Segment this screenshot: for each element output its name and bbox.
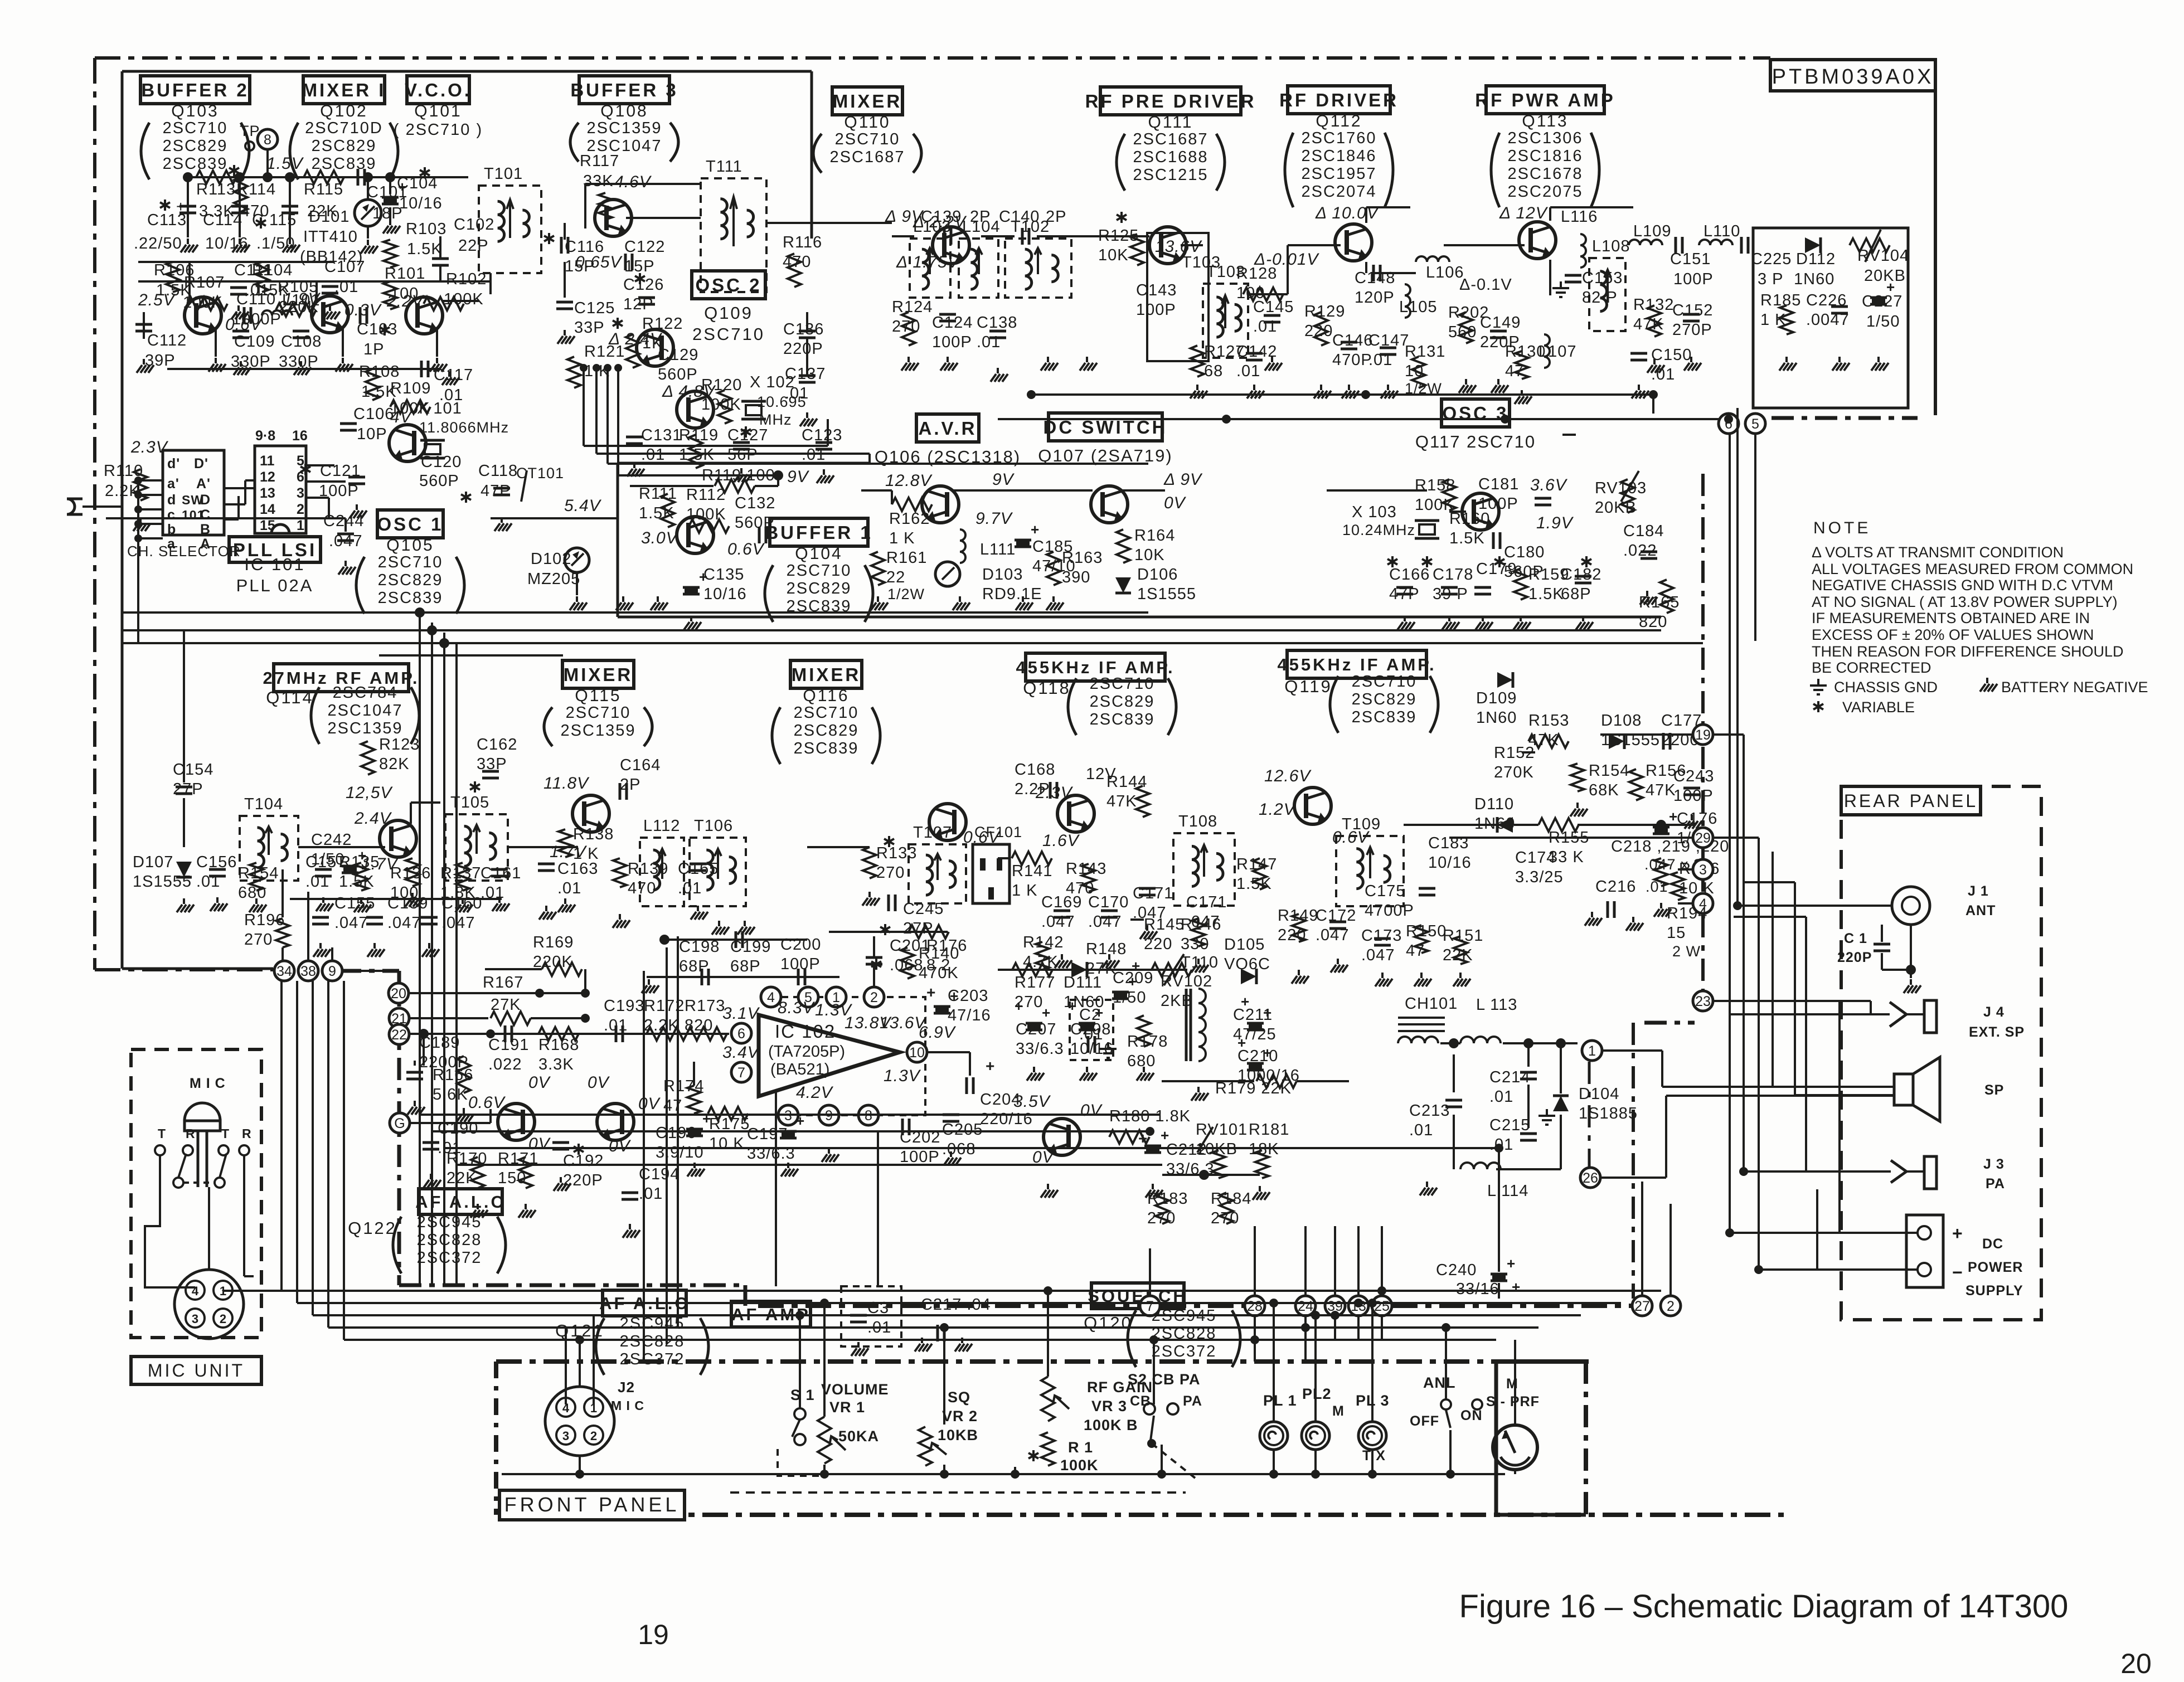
svg-text:2SC710: 2SC710 [1090, 675, 1155, 693]
svg-text:C155: C155 [334, 895, 375, 912]
svg-text:1S1555: 1S1555 [1137, 585, 1196, 603]
svg-text:ANL: ANL [1423, 1374, 1456, 1391]
svg-text:Q115: Q115 [575, 687, 621, 705]
svg-text:MIXER I: MIXER I [302, 80, 386, 100]
svg-text:TP: TP [240, 123, 260, 139]
svg-text:100P: 100P [780, 955, 821, 973]
svg-text:C225: C225 [1751, 250, 1792, 268]
svg-text:C240: C240 [1436, 1261, 1477, 1279]
svg-text:C102: C102 [454, 216, 494, 234]
svg-text:BUFFER 2: BUFFER 2 [141, 80, 249, 100]
svg-text:d': d' [167, 456, 180, 471]
svg-text:D101: D101 [309, 208, 350, 226]
svg-text:L112: L112 [643, 817, 680, 835]
svg-text:R129: R129 [1304, 303, 1345, 320]
svg-text:0V: 0V [528, 1073, 551, 1092]
svg-text:b: b [167, 522, 176, 537]
svg-text:R 1: R 1 [1068, 1439, 1093, 1456]
svg-text:1.5K: 1.5K [639, 504, 674, 522]
svg-text:.047: .047 [1041, 913, 1075, 931]
svg-text:C131: C131 [641, 426, 682, 444]
svg-text:5: 5 [297, 453, 304, 469]
svg-text:EXT. SP: EXT. SP [1969, 1024, 2025, 1040]
svg-text:2SC372: 2SC372 [1152, 1343, 1217, 1360]
svg-text:22: 22 [391, 1027, 407, 1043]
svg-text:C137: C137 [785, 365, 826, 383]
svg-text:11.8066MHz: 11.8066MHz [419, 419, 509, 436]
svg-text:1: 1 [297, 518, 304, 533]
svg-text:Figure 16 – Schematic Diagram: Figure 16 – Schematic Diagram of 14T300 [1459, 1588, 2069, 1625]
svg-text:C146: C146 [1332, 332, 1373, 349]
svg-text:Q122: Q122 [348, 1218, 397, 1238]
svg-text:100K: 100K [1060, 1457, 1099, 1474]
svg-text:R174: R174 [663, 1077, 704, 1095]
svg-text:C 115: C 115 [252, 211, 297, 229]
svg-text:.01: .01 [1253, 318, 1277, 336]
svg-text:1.5V: 1.5V [266, 154, 304, 173]
svg-text:C124: C124 [932, 314, 973, 332]
svg-text:26: 26 [1583, 1170, 1598, 1186]
svg-text:J 4: J 4 [1983, 1004, 2005, 1020]
svg-text:2SC1687: 2SC1687 [1133, 130, 1209, 148]
svg-text:820: 820 [685, 1017, 713, 1034]
svg-text:13: 13 [260, 485, 275, 501]
svg-text:9: 9 [328, 964, 336, 979]
svg-text:3.1V: 3.1V [722, 1004, 760, 1023]
svg-text:L108: L108 [1592, 237, 1630, 255]
svg-text:C149: C149 [1480, 314, 1521, 332]
svg-text:2SC1047: 2SC1047 [328, 702, 403, 720]
svg-text:REAR PANEL: REAR PANEL [1844, 791, 1978, 811]
svg-text:2SC710: 2SC710 [378, 553, 443, 571]
svg-text:2 W: 2 W [1672, 943, 1701, 960]
svg-text:POWER: POWER [1968, 1260, 2023, 1275]
svg-text:2SC829: 2SC829 [378, 571, 443, 589]
svg-text:10/16: 10/16 [703, 585, 747, 603]
svg-text:19: 19 [1695, 727, 1711, 743]
svg-text:MIXER: MIXER [564, 664, 633, 685]
svg-text:3.4V: 3.4V [722, 1043, 760, 1062]
svg-text:2SC945: 2SC945 [620, 1315, 685, 1333]
svg-text:VR 3: VR 3 [1091, 1398, 1127, 1414]
svg-text:3.5V: 3.5V [1013, 1092, 1051, 1111]
svg-text:10K: 10K [1098, 246, 1129, 264]
svg-text:R102: R102 [446, 270, 487, 288]
svg-text:2SC839: 2SC839 [1090, 711, 1155, 728]
svg-text:C216: C216 [1595, 878, 1636, 896]
svg-text:R181: R181 [1249, 1121, 1289, 1139]
svg-text:+: + [1132, 957, 1140, 974]
svg-text:Δ-0.1V: Δ-0.1V [1459, 276, 1512, 294]
svg-text:22K: 22K [446, 1169, 477, 1187]
svg-text:38: 38 [300, 964, 316, 979]
svg-text:S2 CB PA: S2 CB PA [1128, 1371, 1201, 1388]
svg-text:.01: .01 [1646, 878, 1668, 895]
svg-text:B: B [200, 522, 211, 537]
svg-text:+: + [1952, 1223, 1963, 1243]
svg-text:Q109: Q109 [704, 303, 753, 323]
svg-text:270P: 270P [1672, 321, 1712, 339]
svg-text:68K: 68K [1589, 781, 1619, 799]
svg-text:C113: C113 [147, 211, 187, 229]
svg-text:68P: 68P [679, 957, 710, 975]
svg-text:9.7V: 9.7V [975, 509, 1013, 528]
svg-text:L104: L104 [962, 218, 1001, 236]
svg-text:2.2P: 2.2P [1015, 780, 1050, 798]
svg-text:+: + [1042, 1004, 1051, 1021]
svg-text:2.2K: 2.2K [644, 1017, 680, 1034]
svg-text:RF DRIVER: RF DRIVER [1279, 90, 1399, 110]
svg-text:(BA521): (BA521) [770, 1061, 829, 1078]
svg-text:R138: R138 [573, 825, 614, 843]
svg-text:47P: 47P [481, 482, 511, 500]
svg-text:MIC UNIT: MIC UNIT [148, 1360, 245, 1380]
svg-text:Q116: Q116 [803, 687, 849, 705]
svg-text:a: a [167, 536, 176, 552]
svg-text:27K: 27K [491, 996, 521, 1014]
svg-text:D111: D111 [1064, 974, 1102, 991]
svg-text:C145: C145 [1253, 298, 1294, 316]
svg-text:C143: C143 [1136, 281, 1177, 299]
svg-text:+: + [986, 1057, 995, 1075]
svg-text:8 2: 8 2 [926, 956, 950, 974]
svg-text:T104: T104 [244, 795, 283, 813]
svg-text:R142: R142 [1023, 934, 1064, 951]
svg-text:IC 102: IC 102 [775, 1021, 836, 1042]
svg-text:C122: C122 [624, 238, 665, 256]
svg-text:33/6.3: 33/6.3 [1016, 1040, 1064, 1058]
svg-text:28: 28 [1247, 1299, 1263, 1314]
svg-text:C217 .04: C217 .04 [921, 1296, 991, 1314]
svg-text:IF MEASUREMENTS OBTAINED ARE: IF MEASUREMENTS OBTAINED ARE IN [1812, 610, 2090, 626]
svg-text:.01: .01 [1409, 1121, 1433, 1139]
svg-text:8.3V: 8.3V [778, 999, 816, 1017]
svg-text:R113: R113 [196, 181, 236, 198]
svg-text:4.6V: 4.6V [614, 173, 652, 191]
svg-text:R176: R176 [926, 937, 967, 955]
svg-text:C110: C110 [236, 290, 276, 308]
svg-text:PA: PA [1183, 1393, 1202, 1409]
svg-text:C178: C178 [1433, 566, 1473, 584]
svg-text:ANT: ANT [1965, 903, 1996, 918]
svg-text:(TA7205P): (TA7205P) [768, 1043, 845, 1061]
svg-text:33P: 33P [574, 319, 605, 337]
svg-text:RV101: RV101 [1196, 1121, 1248, 1139]
svg-text:C189: C189 [419, 1034, 460, 1052]
svg-text:C163: C163 [557, 860, 598, 878]
svg-text:RF PWR AMP: RF PWR AMP [1475, 90, 1615, 110]
svg-text:PL2: PL2 [1302, 1386, 1332, 1402]
svg-text:120P: 120P [1355, 289, 1395, 307]
svg-text:100K B: 100K B [1084, 1417, 1138, 1433]
svg-text:2SC372: 2SC372 [417, 1249, 482, 1267]
svg-text:VR 1: VR 1 [829, 1399, 865, 1416]
svg-text:2SC839: 2SC839 [378, 589, 443, 607]
svg-text:C199: C199 [730, 938, 771, 956]
svg-text:C243: C243 [1673, 767, 1714, 785]
svg-text:2SC2074: 2SC2074 [1302, 183, 1377, 201]
svg-text:3: 3 [562, 1429, 569, 1443]
svg-text:220K: 220K [533, 953, 573, 971]
svg-text:2.2K: 2.2K [105, 482, 140, 500]
svg-text:10 K: 10 K [709, 1135, 745, 1153]
svg-text:OSC 1: OSC 1 [377, 514, 443, 534]
svg-text:T106: T106 [694, 817, 733, 835]
svg-text:1 K: 1 K [889, 529, 915, 547]
svg-text:1P: 1P [363, 341, 384, 358]
svg-text:34: 34 [276, 964, 292, 979]
svg-text:1N60: 1N60 [1794, 270, 1834, 288]
svg-text:C150: C150 [1651, 346, 1692, 364]
svg-text:+: + [1669, 808, 1678, 825]
svg-text:2: 2 [590, 1429, 597, 1443]
svg-text:Q117 2SC710: Q117 2SC710 [1415, 432, 1536, 451]
svg-text:19: 19 [638, 1619, 669, 1650]
svg-text:+: + [1263, 1004, 1272, 1021]
svg-text:2SC829: 2SC829 [163, 137, 228, 155]
svg-text:15: 15 [260, 518, 275, 533]
svg-text:Q114: Q114 [266, 688, 314, 707]
svg-text:C162: C162 [477, 736, 517, 754]
svg-text:20: 20 [391, 986, 406, 1002]
svg-text:560P: 560P [419, 472, 459, 490]
svg-text:3: 3 [1699, 862, 1707, 878]
svg-text:R115: R115 [304, 181, 343, 198]
svg-text:R: R [242, 1126, 252, 1141]
svg-text:D108: D108 [1601, 712, 1642, 730]
svg-text:100P: 100P [1673, 270, 1714, 288]
svg-text:AT NO SIGNAL ( AT 13.8V POWER: AT NO SIGNAL ( AT 13.8V POWER SUPPLY) [1812, 594, 2118, 610]
svg-text:+: + [950, 988, 959, 1004]
svg-text:R173: R173 [685, 997, 725, 1015]
svg-text:C182: C182 [1561, 566, 1601, 584]
svg-text:680: 680 [238, 884, 266, 902]
svg-text:6: 6 [737, 1026, 745, 1042]
svg-text:ITT410: ITT410 [303, 228, 358, 246]
svg-text:9·8: 9·8 [255, 428, 275, 444]
svg-text:0V: 0V [609, 1137, 632, 1155]
svg-text:J 1: J 1 [1968, 883, 1989, 899]
svg-text:+: + [1237, 1034, 1246, 1051]
svg-text:DC: DC [1982, 1236, 2003, 1252]
svg-text:MIXER: MIXER [792, 664, 861, 685]
svg-text:2SC784: 2SC784 [333, 684, 398, 702]
svg-text:33/16: 33/16 [1456, 1280, 1499, 1298]
svg-text:1/50: 1/50 [1113, 989, 1146, 1007]
svg-text:R154: R154 [1589, 762, 1629, 780]
svg-text:Q101: Q101 [414, 102, 462, 120]
svg-text:Δ 9V: Δ 9V [1163, 470, 1203, 489]
svg-text:Q103: Q103 [171, 102, 219, 120]
svg-text:R109: R109 [390, 380, 431, 397]
svg-text:.047: .047 [1088, 913, 1122, 931]
svg-text:C135: C135 [703, 566, 744, 584]
svg-text:C184: C184 [1623, 522, 1664, 540]
svg-text:Q107 (2SA719): Q107 (2SA719) [1038, 446, 1172, 465]
svg-text:OFF: OFF [1410, 1413, 1439, 1429]
svg-text:2SC829: 2SC829 [794, 722, 859, 740]
svg-text:2SC2075: 2SC2075 [1508, 183, 1583, 201]
svg-text:2SC1306: 2SC1306 [1508, 129, 1583, 147]
svg-text:SUPPLY: SUPPLY [1965, 1283, 2023, 1299]
svg-text:1.5K: 1.5K [1528, 585, 1564, 603]
svg-text:C148: C148 [1355, 269, 1395, 287]
svg-text:R149: R149 [1278, 907, 1318, 925]
svg-text:C160: C160 [441, 895, 482, 912]
svg-text:C192: C192 [563, 1152, 604, 1170]
svg-text:220P: 220P [1837, 950, 1872, 965]
svg-text:2SC1957: 2SC1957 [1302, 165, 1377, 183]
svg-text:1/2W: 1/2W [887, 586, 925, 602]
svg-text:Q113: Q113 [1522, 112, 1568, 130]
svg-text:L103: L103 [913, 218, 952, 236]
svg-text:R169: R169 [533, 934, 574, 951]
svg-text:C109: C109 [234, 333, 275, 351]
svg-text:C159: C159 [387, 895, 428, 912]
svg-text:0V: 0V [1164, 494, 1187, 512]
svg-text:4: 4 [192, 1284, 199, 1298]
svg-text:10K: 10K [1134, 546, 1165, 564]
svg-text:R135: R135 [339, 853, 380, 871]
svg-text:+: + [1031, 521, 1040, 538]
svg-text:4: 4 [767, 990, 775, 1005]
svg-text:2SC710: 2SC710 [692, 324, 765, 344]
svg-text:( 2SC710 ): ( 2SC710 ) [394, 121, 483, 139]
svg-text:BUFFER 1: BUFFER 1 [765, 522, 872, 543]
svg-text:1.5K: 1.5K [407, 240, 443, 258]
svg-text:T107: T107 [913, 824, 952, 842]
svg-text:L 114: L 114 [1487, 1182, 1528, 1200]
svg-text:R145: R145 [1144, 916, 1185, 934]
svg-text:2SC1359: 2SC1359 [328, 720, 403, 737]
svg-text:560P: 560P [735, 514, 775, 532]
svg-text:12.6V: 12.6V [1264, 767, 1312, 785]
svg-text:25: 25 [1374, 1299, 1390, 1314]
svg-text:D112: D112 [1796, 250, 1836, 268]
svg-text:Q104: Q104 [795, 545, 842, 563]
svg-text:C197: C197 [747, 1125, 788, 1143]
svg-text:C114: C114 [203, 211, 242, 229]
svg-text:.01: .01 [678, 879, 702, 897]
svg-text:22P: 22P [458, 237, 489, 255]
svg-text:Q108: Q108 [600, 102, 648, 120]
svg-text:R124: R124 [892, 298, 933, 316]
svg-text:.047: .047 [1361, 946, 1395, 964]
svg-text:V.C.O.: V.C.O. [405, 80, 472, 100]
svg-text:PTBM039A0X: PTBM039A0X [1772, 65, 1934, 89]
svg-text:R161: R161 [886, 549, 927, 567]
svg-text:R166: R166 [433, 1066, 473, 1084]
svg-text:.01: .01 [977, 333, 1001, 351]
svg-text:A': A' [196, 476, 211, 492]
svg-text:S 1: S 1 [790, 1387, 815, 1403]
svg-text:1N60: 1N60 [1476, 709, 1517, 727]
svg-text:EXCESS OF ± 20% OF VALUES SHO: EXCESS OF ± 20% OF VALUES SHOWN [1812, 626, 2094, 643]
svg-text:100P: 100P [1136, 301, 1176, 319]
svg-text:68P: 68P [730, 957, 761, 975]
svg-text:3.0V: 3.0V [641, 529, 679, 547]
svg-text:R: R [186, 1126, 196, 1141]
svg-text:R180 1.8K: R180 1.8K [1109, 1107, 1191, 1125]
svg-text:C166: C166 [1389, 566, 1430, 584]
svg-text:5.4V: 5.4V [564, 497, 602, 515]
svg-text:1S1885: 1S1885 [1579, 1105, 1638, 1122]
svg-text:RV102: RV102 [1161, 973, 1212, 990]
svg-text:100P: 100P [900, 1148, 940, 1166]
svg-text:L111: L111 [980, 541, 1016, 558]
svg-text:C164: C164 [620, 756, 661, 774]
svg-text:R144: R144 [1106, 773, 1147, 791]
svg-text:OSC 3: OSC 3 [1442, 403, 1508, 424]
svg-text:15P: 15P [624, 257, 655, 275]
svg-text:2SC1215: 2SC1215 [1133, 166, 1209, 184]
svg-text:+: + [1241, 993, 1250, 1010]
svg-text:C118: C118 [478, 462, 518, 480]
svg-text:C154: C154 [173, 761, 213, 779]
svg-text:C104: C104 [397, 174, 438, 192]
svg-text:R178: R178 [1127, 1033, 1168, 1051]
svg-text:RV104: RV104 [1857, 247, 1909, 265]
svg-text:R116: R116 [783, 234, 822, 251]
svg-text:R103: R103 [406, 220, 446, 238]
svg-text:.01: .01 [1489, 1088, 1513, 1106]
svg-text:+: + [1507, 1255, 1516, 1272]
svg-text:5.6K: 5.6K [433, 1086, 468, 1103]
svg-text:390: 390 [1062, 568, 1090, 586]
svg-text:2SC828: 2SC828 [620, 1333, 685, 1350]
svg-text:R168: R168 [538, 1036, 579, 1054]
svg-text:68: 68 [1204, 362, 1223, 380]
svg-text:.01: .01 [639, 1185, 663, 1203]
svg-text:470: 470 [628, 879, 656, 897]
svg-text:10/16: 10/16 [399, 195, 443, 212]
svg-text:C196: C196 [656, 1124, 696, 1142]
svg-text:39P: 39P [145, 352, 176, 370]
svg-text:L116: L116 [1561, 208, 1598, 226]
svg-text:2SC829: 2SC829 [1090, 693, 1155, 711]
svg-text:R194: R194 [1667, 905, 1707, 922]
svg-text:VR 2: VR 2 [942, 1408, 978, 1425]
svg-text:T109: T109 [1342, 815, 1381, 833]
svg-text:47/16: 47/16 [948, 1007, 991, 1024]
svg-text:+: + [1886, 279, 1895, 295]
svg-text:27P: 27P [173, 780, 203, 798]
svg-text:2SC1359: 2SC1359 [561, 722, 636, 740]
svg-text:R167: R167 [483, 974, 523, 991]
svg-text:L106: L106 [1426, 264, 1464, 281]
svg-text:455KHz IF AMP.: 455KHz IF AMP. [1016, 658, 1174, 677]
svg-text:C: C [200, 507, 211, 523]
svg-text:2SC1816: 2SC1816 [1508, 147, 1583, 165]
svg-text:C201: C201 [890, 937, 930, 955]
svg-text:R117: R117 [580, 152, 619, 170]
svg-text:.01: .01 [557, 879, 581, 897]
svg-text:D109: D109 [1476, 689, 1517, 707]
svg-text:10.24MHz: 10.24MHz [1342, 522, 1415, 538]
svg-text:L 113: L 113 [1476, 996, 1517, 1014]
svg-text:C108: C108 [281, 333, 322, 351]
svg-text:M I C: M I C [190, 1076, 226, 1091]
svg-text:270K: 270K [1494, 764, 1534, 781]
svg-text:2: 2 [1667, 1299, 1675, 1314]
svg-text:.068: .068 [890, 956, 923, 974]
svg-text:L101: L101 [282, 291, 321, 309]
svg-text:T103: T103 [1182, 254, 1221, 271]
svg-text:47K: 47K [1646, 781, 1676, 799]
svg-text:c: c [167, 507, 176, 523]
svg-text:C173: C173 [1361, 927, 1402, 945]
svg-text:1/50: 1/50 [1866, 313, 1900, 330]
